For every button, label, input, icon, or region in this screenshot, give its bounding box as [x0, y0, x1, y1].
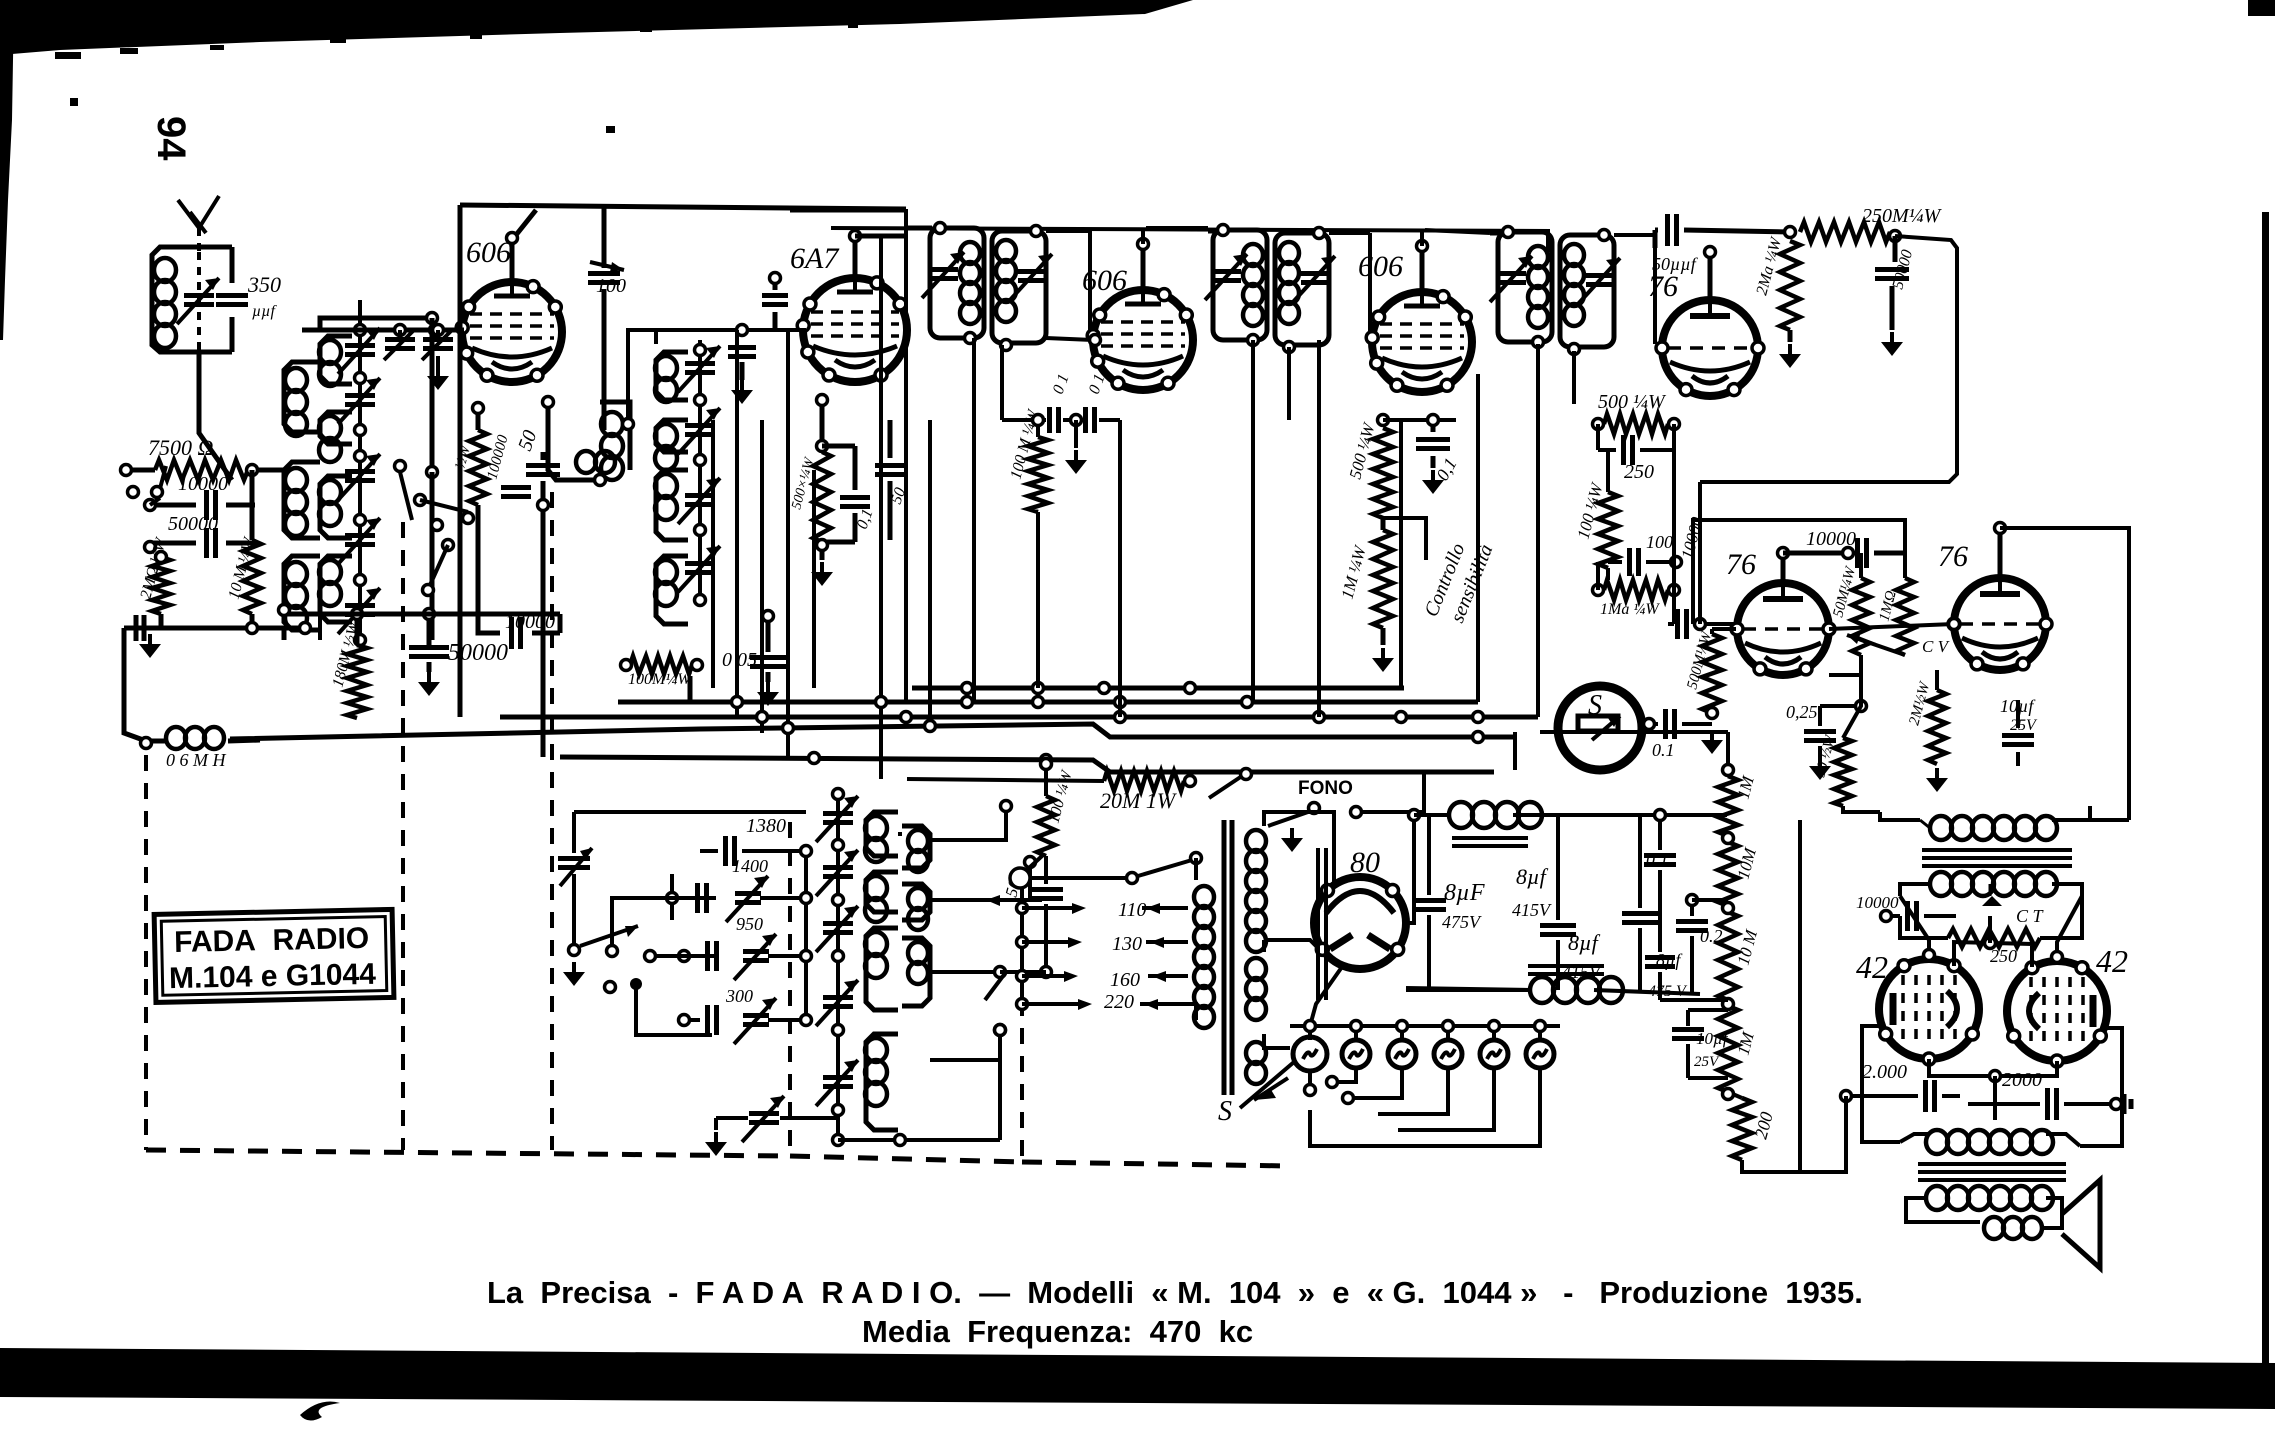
driver transformer primary	[1880, 806, 2090, 840]
capacitor 10000 V6 top	[1693, 520, 1905, 624]
svg-text:50µµf: 50µµf	[1652, 254, 1699, 274]
switch SW2 contacts	[395, 461, 474, 596]
capacitor 025	[1786, 701, 1867, 781]
wire 42 screens	[1954, 916, 2032, 967]
resistor 500 quarter	[1593, 391, 1680, 434]
svg-text:76: 76	[1648, 270, 1678, 303]
resistor 500 V3 cathode	[1346, 415, 1393, 531]
svg-text:475V: 475V	[1442, 912, 1482, 932]
page number 94	[149, 116, 193, 161]
svg-text:1380: 1380	[746, 815, 786, 837]
wire bleeder taps	[1660, 833, 1734, 1100]
IF transformer T1	[908, 223, 1090, 421]
dashed box chassis	[146, 492, 1292, 1166]
svg-text:130: 130	[1112, 933, 1142, 955]
resistor 100 quarter	[1574, 450, 1618, 568]
wire right side long	[1540, 675, 2129, 1160]
wire 42 cathodes	[1929, 1059, 2057, 1120]
resistor 2Ma quarter	[1753, 234, 1801, 368]
resistor 2M quarter W	[137, 535, 170, 628]
wire V6 V7 coupling	[1829, 619, 1960, 630]
scan border right line	[2262, 212, 2269, 1408]
tube V2 6A7	[790, 242, 907, 382]
svg-text:76: 76	[1726, 548, 1756, 581]
capacitor 02	[1676, 895, 1723, 995]
mains taps	[1017, 899, 1189, 1013]
resistor 100M V3	[1007, 407, 1048, 688]
antenna	[178, 196, 219, 352]
svg-text:415V: 415V	[1512, 900, 1552, 920]
svg-text:La Precisa - F A D A R A D: La Precisa - F A D A R A D I O. — Modell…	[487, 1275, 1863, 1310]
wire bus B1	[912, 683, 1404, 694]
wire drop fan	[690, 209, 930, 779]
resistor 1M bleeder	[1718, 732, 1758, 836]
wire V5 plate top	[1652, 214, 1796, 300]
capacitor 50000	[145, 513, 256, 558]
V2 bias network	[789, 446, 876, 586]
svg-text:FADA RADIO: FADA RADIO	[174, 922, 370, 959]
tube V1 606	[456, 236, 562, 382]
svg-text:0 6 M H: 0 6 M H	[166, 750, 226, 770]
resistor 250 driver	[1900, 896, 2082, 966]
wire IF drops	[974, 340, 1478, 717]
switch SW1 left	[128, 466, 167, 505]
wire padder feed	[700, 812, 812, 1026]
svg-text:300: 300	[725, 986, 753, 1006]
driver transformer core	[1922, 850, 2072, 866]
resistor 300M	[452, 403, 531, 521]
resistor 1Ma quarter	[1593, 450, 1680, 618]
coil L4 band set A	[284, 556, 320, 630]
wire V8 plates	[1264, 812, 1334, 948]
svg-text:2.000: 2.000	[1862, 1061, 1907, 1083]
power switch	[558, 812, 716, 1035]
choke 06MH	[141, 727, 261, 770]
capacitor 10uF 25V filter	[1672, 1010, 1730, 1078]
wire osc links	[838, 812, 1030, 1146]
svg-text:25V: 25V	[2010, 717, 2038, 734]
padder series caps	[667, 815, 839, 1156]
label CT	[2016, 906, 2045, 926]
svg-text:1400: 1400	[732, 856, 768, 876]
tube V4 606	[1358, 250, 1472, 392]
resistor 250M quarter	[1800, 205, 1943, 242]
resistor 100 quarter osc	[1037, 759, 1076, 857]
trimmer column oscillator	[816, 789, 858, 1146]
coil L8 band set B	[319, 556, 352, 622]
coil L5 band set B	[319, 336, 352, 386]
wire af bottom	[1742, 1096, 1846, 1172]
svg-text:0,25: 0,25	[1786, 702, 1818, 722]
resistor 1M V3	[1338, 530, 1394, 672]
dial lamps	[1254, 1021, 1560, 1147]
wire osc bottom rail	[279, 605, 561, 641]
svg-text:94: 94	[149, 116, 193, 161]
wire controllo tap	[1383, 518, 1426, 560]
capacitor 10000 coupling V5	[1668, 515, 1736, 639]
resistor 1M ohm CV	[1847, 553, 1951, 656]
svg-text:8µf: 8µf	[1516, 864, 1549, 889]
tube V8 80	[1314, 846, 1406, 969]
resistor 7500 ohm	[121, 435, 291, 480]
svg-text:606: 606	[466, 236, 511, 269]
svg-text:8µf: 8µf	[1568, 930, 1601, 955]
label S transformer	[1218, 1062, 1294, 1127]
svg-text:C T: C T	[2016, 906, 2045, 926]
wire left bank bottom	[124, 470, 311, 741]
svg-text:220: 220	[1104, 991, 1134, 1013]
wire V3 plate	[1138, 228, 1209, 292]
resistor 200 bleeder	[1728, 1092, 1800, 1172]
label controllo sensibilita	[1420, 540, 1497, 626]
transformer primary	[1188, 858, 1214, 1028]
scan border left band	[0, 0, 14, 340]
capacitor 8uF b	[1512, 815, 1576, 990]
driver transformer secondary	[1900, 872, 2082, 906]
resistor 400M	[621, 656, 703, 688]
grid structure V2	[728, 273, 806, 405]
coil L7 band set B	[319, 476, 352, 538]
tube V3 606	[1002, 264, 1193, 420]
svg-text:42: 42	[1856, 949, 1888, 985]
capacitor 250	[1598, 424, 1674, 483]
resistor 10M bleeder	[1718, 842, 1760, 906]
svg-text:76: 76	[1938, 540, 1968, 573]
capacitor 50	[514, 427, 560, 757]
wire bank2 top	[320, 313, 438, 641]
transformer HV secondary	[1246, 812, 1314, 952]
svg-text:160: 160	[1110, 969, 1140, 991]
capacitor 8uF a	[1406, 815, 1530, 990]
capacitor 10000 driver	[1856, 893, 1956, 931]
svg-text:10000: 10000	[178, 473, 228, 495]
label box FADA RADIO	[154, 909, 394, 1002]
tube V9 42	[1856, 949, 1979, 1065]
resistor 10 4 bleeder	[1718, 912, 1761, 1000]
output transformer secondary	[1906, 1186, 2062, 1239]
caption line 1	[487, 1275, 1863, 1310]
svg-text:S: S	[1218, 1096, 1232, 1127]
capacitor 50000 bypass	[409, 609, 508, 697]
grid caps row V1	[384, 325, 453, 391]
switch wafer right	[985, 801, 1042, 1036]
resistor 1M bleeder b	[1718, 1006, 1758, 1092]
trimmer column stage2	[678, 340, 720, 606]
svg-text:M.104 e G1044: M.104 e G1044	[169, 958, 377, 995]
resistor 500M quarter V6	[1684, 629, 1736, 719]
coil bank V2 left	[655, 330, 688, 624]
svg-text:C V: C V	[1922, 637, 1951, 656]
V2 bias resistor	[817, 395, 828, 452]
resistor 180M half W	[329, 609, 367, 719]
scan border bottom band	[0, 1348, 2275, 1421]
resistor 50 half W V6	[1812, 675, 1861, 806]
capacitor 10000	[145, 473, 256, 520]
svg-text:50000: 50000	[168, 513, 218, 535]
fono jack	[1268, 774, 1424, 852]
svg-text:10000: 10000	[1856, 893, 1899, 912]
svg-text:6A7: 6A7	[790, 242, 840, 275]
trimmer C1	[177, 278, 219, 324]
svg-text:FONO: FONO	[1298, 778, 1353, 799]
wire antenna to band coils	[199, 352, 232, 480]
wire V2 top link	[623, 330, 807, 430]
capacitor 50 V2	[875, 420, 909, 540]
resistor 2M half V7	[1906, 670, 1948, 792]
svg-text:2000: 2000	[2002, 1069, 2042, 1091]
svg-text:8µF: 8µF	[1444, 880, 1485, 906]
wire V5 plate loop	[1700, 236, 1957, 624]
svg-text:250: 250	[1624, 461, 1654, 483]
resistor 50M quarter	[1830, 553, 1870, 675]
IF transformer T2	[1205, 225, 1370, 703]
wire 42 grids	[1900, 896, 2082, 963]
speaker	[2062, 1180, 2100, 1268]
svg-text:250M¼W: 250M¼W	[1862, 205, 1943, 227]
caption line 2	[862, 1314, 1253, 1349]
coil L3 band set A	[284, 462, 320, 538]
svg-text:350: 350	[247, 272, 281, 297]
tube V7 76	[1938, 540, 2052, 670]
antenna coil L1	[152, 247, 199, 352]
capacitor 01 filter	[1644, 810, 1676, 953]
svg-text:25V: 25V	[1694, 1054, 1720, 1070]
IF transformer T3	[1490, 227, 1655, 718]
capacitor 100	[1608, 532, 1682, 580]
tube V10 42	[2007, 943, 2128, 1067]
capacitor 2000 a	[1841, 1061, 1961, 1112]
svg-text:42: 42	[2096, 943, 2128, 979]
svg-text:100: 100	[1646, 532, 1673, 552]
tube V6 76	[1726, 548, 1835, 675]
svg-text:606: 606	[1358, 250, 1403, 283]
resistor 20M 1W	[907, 769, 1252, 814]
oscillator coil column 2	[902, 826, 930, 1006]
transformer core	[1224, 820, 1232, 1095]
mains switch	[986, 853, 1202, 907]
coil L6 band set B	[319, 412, 352, 462]
meter S	[1558, 686, 1642, 770]
capacitor 8uF d	[1645, 950, 1688, 1000]
wire V4 plate	[1370, 230, 1490, 340]
capacitor C2 350	[199, 247, 281, 352]
svg-text:Media Frequenza: 470 kc: Media Frequenza: 470 kc	[862, 1314, 1253, 1349]
output transformer core	[1918, 1164, 2066, 1180]
capacitor C 100	[588, 205, 626, 430]
svg-text:100: 100	[596, 275, 626, 297]
wire V7 plate	[1995, 523, 2130, 821]
filter choke 2	[1406, 966, 1700, 1003]
capacitor 10000 coupling	[478, 520, 560, 649]
svg-text:0.1: 0.1	[1652, 740, 1675, 760]
capacitor 50000 V5	[1875, 236, 1916, 356]
svg-text:50000: 50000	[448, 640, 508, 666]
wire bus B4	[230, 721, 1515, 743]
capacitor 01 controllo	[1383, 415, 1461, 495]
coil L2 band set A	[284, 362, 320, 436]
capacitor 005	[722, 611, 786, 707]
trimmer column stage1	[338, 300, 380, 646]
grid caps V3	[1002, 372, 1120, 474]
tube V5 76	[1648, 270, 1764, 396]
transformer LV secondary	[1246, 958, 1290, 1084]
oscillator coil column 1	[865, 812, 898, 1130]
wire 42 plates out	[1862, 1026, 2122, 1146]
capacitor 500	[1000, 856, 1063, 978]
output transformer primary	[1900, 1130, 2080, 1154]
oscillator coil box	[543, 397, 631, 486]
svg-text:7500 Ω: 7500 Ω	[148, 435, 214, 460]
svg-text:µµf: µµf	[252, 303, 277, 320]
capacitor 01 meter	[1642, 709, 1723, 760]
wire bus right ends	[1404, 688, 1538, 770]
wire V2 plate	[790, 210, 1548, 282]
wire bus B3	[500, 712, 1538, 723]
wire V1 grid	[302, 325, 464, 336]
filter choke 1	[1414, 802, 1727, 846]
wire bus B5	[560, 753, 1494, 773]
wire V8 output	[1310, 810, 1420, 1027]
wire bus B2	[618, 697, 1478, 708]
resistor 10M quarter W	[225, 534, 261, 628]
capacitor 8uF c	[1562, 815, 1658, 990]
svg-text:950: 950	[736, 914, 763, 934]
scan border top wedge	[0, 0, 2275, 294]
capacitor 2000 b	[1968, 1069, 2131, 1120]
capacitor 10uF 25V	[2000, 696, 2038, 766]
wire V1 plate top	[460, 205, 906, 717]
